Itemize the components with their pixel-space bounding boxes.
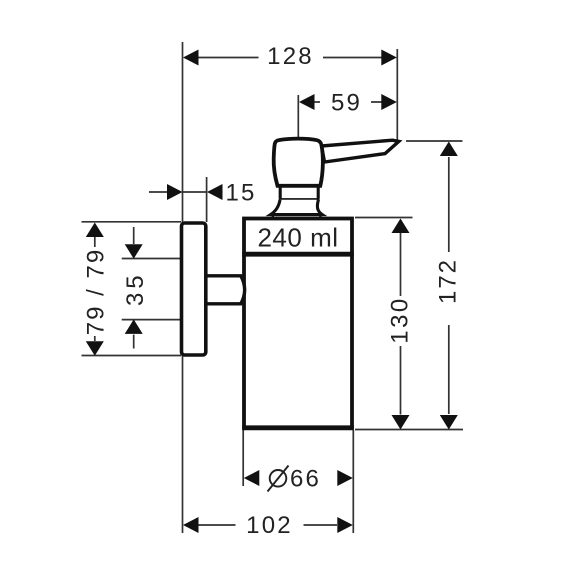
svg-text:35: 35 (122, 271, 149, 306)
dimension diameter 66 left arrow (244, 470, 259, 486)
dimension 128 left arrow (183, 50, 199, 66)
dimension 35 bottom arrow (125, 319, 143, 334)
dimension 102 line segments (198, 524, 337, 526)
holder arm fill (208, 276, 245, 304)
svg-text:172: 172 (435, 258, 462, 304)
dimension 59 line segments (313, 101, 382, 103)
extension line: 35 bottom horizontal (122, 319, 181, 321)
dimension 102 right arrow (337, 517, 353, 533)
extension line: right of 128 / lever tip vertical (396, 49, 398, 140)
diameter symbol slash (268, 466, 289, 492)
dimension 59 right arrow (381, 94, 397, 110)
dimension 35 top arrow (125, 244, 143, 259)
wall plate (182, 223, 206, 355)
dimension diameter 66 right arrow (337, 470, 353, 486)
extension line: bottle bottom horizontal (130/172 bottom) (355, 429, 463, 431)
extension line: plate bottom horizontal (79/79) (82, 355, 182, 357)
pump base notches (273, 216, 321, 219)
svg-text:66: 66 (290, 465, 321, 492)
pump neck (279, 187, 320, 200)
svg-text:102: 102 (246, 512, 293, 539)
extension line: left of 59 vertical (297, 95, 299, 138)
extension line: below bottle right vertical (diam 66 / 102) (352, 430, 354, 533)
dimension 102 left arrow (183, 517, 199, 533)
dimension 79/79 line segments (94, 237, 96, 341)
dimension 130 top arrow (392, 219, 410, 234)
dimension 15 line segments (149, 191, 206, 193)
dimension 79/79 bottom arrow (86, 341, 104, 356)
dimension 130 bottom arrow (392, 415, 410, 430)
dimension 172 top arrow (440, 142, 458, 157)
dimension 128 right arrow (381, 50, 397, 66)
pump lever (322, 140, 399, 162)
svg-text:15: 15 (226, 180, 257, 207)
extension line: bottle top horizontal (130 top) (355, 217, 413, 219)
svg-text:240 ml: 240 ml (257, 223, 338, 253)
dimension 130 line segments (400, 233, 402, 415)
svg-text:130: 130 (387, 296, 414, 344)
bottle label band line (242, 252, 354, 257)
svg-text:79 / 79: 79 / 79 (83, 248, 110, 335)
dimension 15 right arrow (207, 184, 223, 200)
extension line: below bottle left vertical (diam 66) (242, 430, 244, 486)
bottle body (244, 219, 352, 428)
bottle bottom thick line (242, 425, 354, 430)
dimension 79/79 top arrow (86, 223, 104, 238)
dimension 59 left arrow (299, 94, 315, 110)
extension line: wall / left main vertical (182, 42, 184, 533)
dimension 172 line segments (448, 157, 450, 414)
svg-text:128: 128 (267, 43, 314, 70)
extension line: plate top horizontal (79/79) (82, 221, 182, 223)
dimension 172 bottom arrow (440, 415, 458, 430)
diameter symbol circle (270, 470, 287, 487)
pump body (274, 139, 323, 186)
svg-text:59: 59 (331, 90, 362, 117)
dimension 128 line segments (197, 57, 384, 59)
dimension 35 shafts (133, 227, 135, 349)
extension line: lever tip horizontal (172 top) (406, 140, 463, 142)
extension line: 35 top horizontal (122, 258, 181, 260)
holder arm outline (207, 276, 245, 304)
extension line: right of 15 vertical (206, 177, 208, 222)
dimension 15 left arrow (167, 184, 183, 200)
pump skirt (271, 200, 323, 215)
